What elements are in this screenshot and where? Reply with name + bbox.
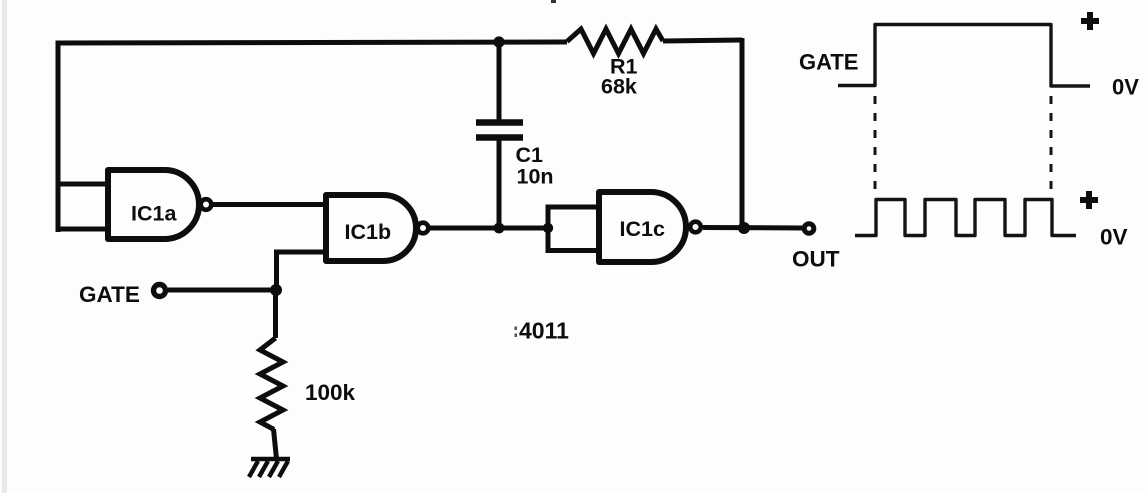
label plus lower bbox=[1080, 191, 1098, 209]
resistor R1 bbox=[567, 29, 663, 54]
resistor 100k bbox=[260, 338, 283, 430]
svg-text:68k: 68k bbox=[601, 75, 637, 99]
wire: top rail left segment bbox=[56, 42, 568, 43]
capacitor C1 bbox=[476, 123, 523, 138]
svg-text:IC1c: IC1c bbox=[620, 217, 665, 241]
terminal GATE bbox=[154, 285, 166, 297]
wire: left feedback vertical bbox=[56, 43, 61, 232]
terminal OUT bbox=[804, 224, 814, 234]
svg-text:10n: 10n bbox=[517, 165, 554, 189]
waveform: OUT burst trace bbox=[855, 200, 1076, 236]
svg-text:0V: 0V bbox=[1100, 225, 1128, 250]
wire: IC1c input tie bar and stubs bbox=[546, 205, 551, 254]
svg-text:GATE: GATE bbox=[79, 282, 140, 307]
svg-text:GATE: GATE bbox=[799, 50, 858, 75]
wire: IC1a input tie stubs bbox=[58, 182, 110, 187]
svg-text:IC1a: IC1a bbox=[131, 202, 177, 226]
ground bbox=[249, 459, 290, 477]
svg-text:IC1b: IC1b bbox=[345, 220, 392, 244]
wire: rail to C1 top plate bbox=[497, 42, 502, 122]
gate IC1c bbox=[599, 192, 686, 262]
wire: IC1b lower input riser from gate node bbox=[277, 252, 329, 290]
svg-text:0V: 0V bbox=[1112, 75, 1139, 100]
svg-text:100k: 100k bbox=[305, 380, 356, 405]
node: junction IC1c input bbox=[543, 223, 553, 233]
node: junction output with feedback bbox=[738, 222, 750, 234]
dashed timing line left bbox=[874, 96, 877, 192]
wire: C1 bottom plate to mid wire bbox=[497, 137, 502, 228]
op-amp gate IC1a bbox=[108, 170, 199, 239]
wire: IC1a output to IC1b input bbox=[213, 202, 328, 207]
wire: right vertical drop to output node bbox=[740, 38, 745, 228]
svg-text:4011: 4011 bbox=[519, 318, 569, 344]
wire: IC1c output to OUT terminal bbox=[703, 225, 805, 231]
node: junction C1 top on rail bbox=[493, 36, 504, 47]
node: GATE junction bbox=[270, 284, 282, 296]
wire: resistor to ground bbox=[274, 429, 277, 459]
wire: top rail right segment bbox=[663, 40, 742, 41]
svg-text:OUT: OUT bbox=[792, 247, 840, 272]
waveform: GATE pulse trace bbox=[838, 25, 1090, 87]
label plus upper bbox=[1081, 12, 1099, 30]
svg-text:C1: C1 bbox=[516, 143, 544, 167]
wire: GATE terminal to junction bbox=[168, 288, 276, 293]
wire: junction down to resistor 100k bbox=[273, 290, 278, 338]
node: junction C1 bottom bbox=[494, 223, 505, 234]
dashed timing line right bbox=[1050, 96, 1053, 192]
wire: IC1b output to IC1c input node bbox=[428, 226, 548, 231]
gate IC1b bbox=[326, 195, 416, 261]
